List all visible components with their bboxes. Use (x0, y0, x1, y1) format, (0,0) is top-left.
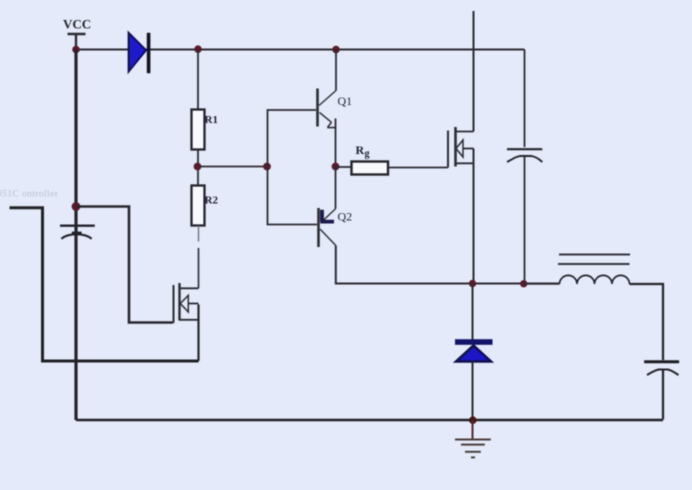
wire: inductor to output corner (630, 284, 664, 360)
wire: node to Rg (336, 166, 352, 168)
transistor Q2 (PNP) (319, 208, 336, 247)
capacitor C2 (60, 226, 95, 239)
svg-text:R: R (356, 143, 365, 157)
wire: controller output to source line (10, 208, 199, 361)
wire: R1 to R2 (197, 150, 199, 186)
wire: Q3 drain up (473, 11, 475, 132)
node: after diode (194, 45, 202, 53)
node: Q1 collector rail (332, 46, 340, 54)
svg-text:R1: R1 (205, 114, 218, 126)
inductor L1 (558, 255, 630, 285)
node: R1/R2 midpoint (194, 163, 202, 171)
wire: top rail (76, 49, 525, 51)
node: C1 bottom junction (520, 280, 527, 287)
wire: junction to Q4 gate (76, 207, 173, 323)
svg-text:051C ontroller: 051C ontroller (0, 190, 59, 200)
wire: rail to inductor (524, 283, 560, 285)
ground (455, 420, 491, 457)
svg-text:g: g (365, 149, 370, 160)
capacitor C3 (output) (644, 362, 679, 420)
wire: bottom rail (76, 419, 663, 422)
wire: base bracket (268, 110, 318, 225)
wire: Q1 emitter down (335, 119, 337, 167)
transistor Q1 (NPN) (318, 89, 337, 128)
node: bracket mid (263, 163, 271, 171)
wire: Rg to gate (388, 167, 448, 169)
VCC power symbol (68, 34, 86, 50)
node: emitter junction (332, 163, 340, 171)
wire: R2 down to Q4 drain (198, 226, 200, 242)
MOSFET Q3 (main switch) (448, 127, 474, 168)
MOSFET Q4 (small, low side) (174, 283, 199, 323)
node: left junction (72, 202, 81, 211)
svg-text:R2: R2 (205, 195, 219, 207)
node: ground junction (469, 416, 477, 424)
wire: left VCC vertical (74, 50, 77, 421)
capacitor C1 (507, 50, 542, 284)
node: VCC junction (72, 46, 80, 54)
wire: Q4 source down (197, 305, 199, 362)
resistor R1 (192, 110, 205, 150)
svg-text:VCC: VCC (63, 17, 91, 32)
resistor R2 (192, 186, 205, 226)
node: rail/zener junction (469, 280, 476, 287)
wire: Q1 collector up (335, 50, 337, 91)
zener diode D2 (455, 284, 493, 421)
diode D1 (129, 33, 149, 73)
resistor Rg (352, 162, 389, 175)
wire: Q3 source down (473, 149, 475, 284)
wire: emitter node down to Q2 (335, 167, 337, 209)
svg-text:Q2: Q2 (338, 210, 353, 224)
svg-text:Q1: Q1 (338, 94, 353, 108)
wire: rail to R1 (197, 50, 199, 110)
wire: Q2 collector to bottom rail (336, 246, 560, 284)
wire: midpoint to bracket (198, 166, 268, 168)
